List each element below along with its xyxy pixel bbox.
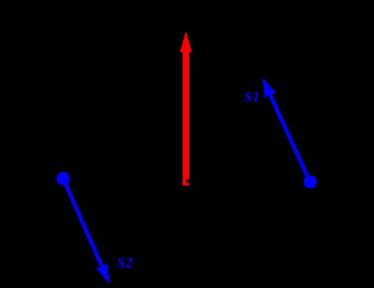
vector S1 wire bbox=[268, 91, 310, 182]
vector S1 start dot bbox=[304, 175, 317, 188]
red resultant vector (shaft) bbox=[183, 48, 189, 186]
svg-text:S2: S2 bbox=[117, 256, 133, 272]
red resultant vector (arrowhead) bbox=[180, 31, 192, 53]
svg-text:S1: S1 bbox=[244, 90, 260, 106]
vector S2 arrowhead bbox=[96, 263, 110, 285]
vector S2 wire bbox=[63, 179, 104, 271]
black origin notch over red shaft bbox=[186, 180, 189, 183]
vector S1 arrowhead bbox=[262, 77, 276, 99]
vector S2 start dot bbox=[57, 172, 70, 185]
